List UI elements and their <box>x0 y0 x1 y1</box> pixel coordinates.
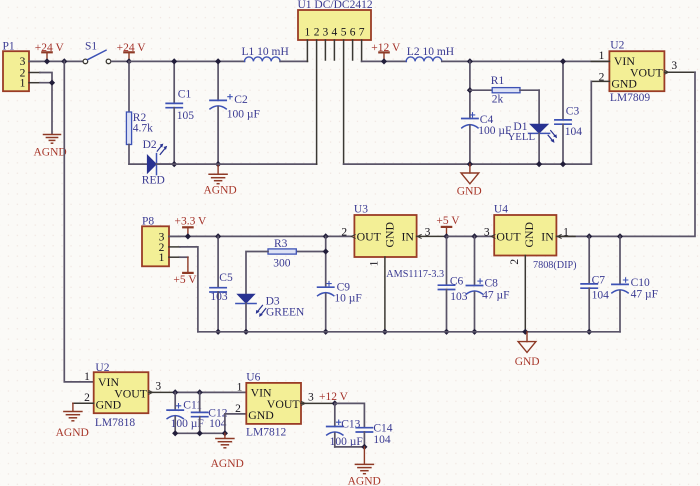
svg-text:1: 1 <box>20 78 26 90</box>
svg-text:1: 1 <box>237 382 243 394</box>
svg-text:2: 2 <box>341 226 347 238</box>
svg-text:7: 7 <box>359 27 365 39</box>
svg-text:103: 103 <box>450 291 468 303</box>
resistor R2 <box>126 61 153 164</box>
junction left vertical drop <box>61 58 67 64</box>
svg-text:GND: GND <box>611 76 637 90</box>
ground AGND under C12 <box>211 433 244 470</box>
svg-text:47 µF: 47 µF <box>482 290 509 302</box>
capacitor C5 <box>210 236 233 331</box>
svg-text:7808(DIP): 7808(DIP) <box>533 260 577 271</box>
svg-text:RED: RED <box>142 175 165 187</box>
svg-text:U2: U2 <box>610 40 624 52</box>
capacitor C14 <box>356 423 393 447</box>
IC U4 7808(DIP) <box>494 204 577 272</box>
wire U2b VOUT to U6 VIN <box>175 391 246 393</box>
svg-text:2: 2 <box>509 259 521 265</box>
pin 2 stub of P8 <box>169 246 180 248</box>
pin 3 of U6 (VOUT) <box>301 392 335 406</box>
pin 6 of U1 stub <box>352 40 354 60</box>
IC U3 AMS1117-3.3 <box>354 204 444 281</box>
IC U2 LM7818 <box>94 362 149 429</box>
pin 3 stub of P1 <box>29 60 40 62</box>
inductor L1 <box>242 46 289 62</box>
svg-text:3: 3 <box>308 392 314 404</box>
svg-text:C6: C6 <box>450 275 464 287</box>
svg-text:3: 3 <box>323 27 329 39</box>
svg-text:103: 103 <box>210 291 228 303</box>
wire U1 pin7 to L2 <box>362 60 407 62</box>
svg-text:L2 10 mH: L2 10 mH <box>407 46 454 58</box>
pin 3 of U2b (VOUT) <box>148 381 175 395</box>
junction C5 top <box>215 233 221 239</box>
svg-text:104: 104 <box>209 418 227 430</box>
ground AGND under C2 <box>209 164 227 184</box>
pin 2 of U3 (OUT) <box>341 226 355 238</box>
junction +12V <box>381 58 387 64</box>
svg-text:1: 1 <box>84 371 90 383</box>
pin 3 of U3 (IN) <box>417 226 447 238</box>
LED D3 <box>236 294 305 332</box>
wire VOUT to C14 <box>335 403 365 427</box>
svg-text:104: 104 <box>373 434 391 446</box>
wire U2 GND down to rail <box>590 81 592 164</box>
svg-text:6: 6 <box>350 27 356 39</box>
svg-text:+24 V: +24 V <box>117 42 147 54</box>
junction C12 top <box>197 389 203 395</box>
svg-text:LM7818: LM7818 <box>95 417 135 429</box>
svg-text:GND: GND <box>248 408 274 422</box>
svg-text:GND: GND <box>515 356 540 368</box>
IC U6 LM7812 <box>246 371 301 438</box>
svg-text:OUT: OUT <box>357 229 382 243</box>
svg-text:C3: C3 <box>566 106 580 118</box>
ground GND row2 <box>515 332 540 368</box>
wire C4 branch vertical <box>469 61 471 118</box>
power +5 V inverted at P8 pin1 <box>173 257 197 286</box>
IC U2 LM7809 <box>609 40 664 105</box>
svg-text:2: 2 <box>235 403 241 415</box>
pin 1 of U6 (VIN) <box>237 382 243 394</box>
junction C7 bottom <box>586 329 592 335</box>
switch S1 <box>83 41 111 64</box>
junction C4 bottom <box>467 161 473 167</box>
power +3.3 V <box>175 216 208 237</box>
svg-text:3: 3 <box>484 226 490 238</box>
svg-text:C10: C10 <box>631 277 650 289</box>
pin 1 of U1 <box>306 40 308 61</box>
capacitor C8 polarized <box>466 236 509 331</box>
junction U4 GND bottom <box>522 329 528 335</box>
svg-text:YELL: YELL <box>508 131 536 143</box>
svg-text:OUT: OUT <box>496 229 521 243</box>
junction C3 bottom <box>560 161 566 167</box>
svg-text:U3: U3 <box>354 204 368 216</box>
svg-text:AGND: AGND <box>204 184 237 196</box>
svg-text:AMS1117-3.3: AMS1117-3.3 <box>386 269 444 280</box>
junction C2 bottom <box>215 161 221 167</box>
IC U1 DC/DC2412 <box>298 0 373 40</box>
pin 4 of U1 stub <box>333 40 335 60</box>
junction AGND row3 <box>222 430 228 436</box>
svg-text:+3.3 V: +3.3 V <box>175 216 208 228</box>
pin 1 of U3 (GND) <box>369 257 385 332</box>
svg-text:C5: C5 <box>219 272 233 284</box>
capacitor C12 <box>192 392 228 433</box>
svg-text:100 µF: 100 µF <box>171 418 204 430</box>
LED D2 <box>129 139 174 186</box>
capacitor C9 polarized <box>318 281 362 331</box>
svg-text:1: 1 <box>159 252 165 264</box>
inductor L2 <box>406 46 454 62</box>
wire C11/C12 bottom rail <box>175 432 225 434</box>
connector P8 <box>142 216 169 267</box>
wire main bus to L1 <box>129 60 245 62</box>
junction +5V / C6 <box>443 233 449 239</box>
svg-text:R1: R1 <box>491 75 505 87</box>
ground AGND under P1 <box>44 135 61 144</box>
capacitor C13 polarized <box>327 403 363 447</box>
junction C10 top <box>617 233 623 239</box>
junction +24V on wire <box>44 58 50 64</box>
wire P1 pin3 to switch <box>29 60 83 62</box>
resistor R3 <box>246 238 326 294</box>
wire long vertical to bottom U2 <box>64 61 93 382</box>
pin 3 of U4 (OUT) <box>484 226 495 238</box>
svg-text:4: 4 <box>332 27 338 39</box>
ground AGND at U2b <box>56 403 89 439</box>
capacitor C2 polarized <box>210 61 260 164</box>
svg-text:2k: 2k <box>492 94 504 106</box>
svg-text:105: 105 <box>177 110 195 122</box>
svg-text:LM7809: LM7809 <box>610 92 651 104</box>
svg-text:L1 10 mH: L1 10 mH <box>242 46 289 58</box>
pin 1 of U2 (VIN) <box>591 50 609 62</box>
svg-text:GND: GND <box>96 398 122 412</box>
pin 2 of U4 (GND) <box>509 256 525 332</box>
junction C14 bottom <box>361 444 367 450</box>
capacitor C4 polarized <box>462 113 512 164</box>
junction C13 top <box>332 400 338 406</box>
svg-text:C8: C8 <box>485 278 499 290</box>
svg-text:C14: C14 <box>373 423 392 435</box>
pin 1 stub of P8 <box>169 256 180 258</box>
svg-text:2: 2 <box>84 392 90 404</box>
wire GND rail right (U1 pin5 to U2 GND) <box>344 163 592 165</box>
svg-text:104: 104 <box>565 126 583 138</box>
svg-text:5: 5 <box>341 27 347 39</box>
svg-text:AGND: AGND <box>34 147 67 159</box>
svg-text:100 µF: 100 µF <box>478 125 511 137</box>
svg-text:1: 1 <box>563 226 569 238</box>
power +24 V at P1 <box>35 42 65 62</box>
svg-text:C7: C7 <box>592 274 606 286</box>
svg-text:R3: R3 <box>274 238 288 250</box>
junction C4 branch <box>467 58 473 64</box>
wire P1 pin2 down <box>40 73 52 83</box>
svg-text:+5 V: +5 V <box>436 215 460 227</box>
svg-text:3: 3 <box>155 381 161 393</box>
svg-text:GREEN: GREEN <box>266 307 305 319</box>
wire AGND rail left (D2 to U1 pin2) <box>157 163 317 165</box>
svg-text:U1 DC/DC2412: U1 DC/DC2412 <box>298 0 373 11</box>
junction C12 bottom <box>197 430 203 436</box>
svg-text:300: 300 <box>273 257 291 269</box>
junction U3 GND bottom <box>382 329 388 335</box>
svg-text:GND: GND <box>457 185 482 197</box>
svg-text:IN: IN <box>541 229 554 243</box>
junction C3 top <box>560 58 566 64</box>
svg-text:+24 V: +24 V <box>35 42 65 54</box>
svg-text:GND: GND <box>522 221 536 247</box>
svg-text:3: 3 <box>20 56 26 68</box>
svg-text:100 µF: 100 µF <box>330 436 363 448</box>
pin 1 of U4 (IN) <box>556 226 575 238</box>
wire C13 to C14 bottom <box>335 446 365 448</box>
svg-text:P8: P8 <box>142 216 154 228</box>
svg-text:C1: C1 <box>178 88 192 100</box>
junction R3 right <box>323 248 329 254</box>
capacitor C6 <box>438 236 467 331</box>
wire U6 GND to rail <box>225 414 246 433</box>
junction C8 top <box>471 233 477 239</box>
svg-text:S1: S1 <box>85 41 97 53</box>
LED D1 <box>508 90 557 164</box>
svg-text:47 µF: 47 µF <box>631 288 658 300</box>
pin 3 stub of P8 <box>169 235 180 237</box>
capacitor C11 polarized <box>167 392 204 433</box>
svg-text:C13: C13 <box>341 419 360 431</box>
connector P1 <box>3 41 30 92</box>
svg-text:3: 3 <box>671 60 677 72</box>
svg-text:+5 V: +5 V <box>173 274 197 286</box>
svg-text:AGND: AGND <box>348 476 381 486</box>
wire P1 pin1 to AGND <box>40 83 52 134</box>
wire L2 to U2 VIN <box>442 60 610 62</box>
pin 1 stub of P1 <box>29 82 40 84</box>
junction C11 top <box>172 389 178 395</box>
svg-text:+12 V: +12 V <box>319 391 349 403</box>
pin 1 of U2b (VIN) <box>84 371 90 383</box>
pin 5 of U1 (to GND rail) <box>343 40 345 164</box>
svg-text:1: 1 <box>305 27 311 39</box>
svg-text:2: 2 <box>314 27 320 39</box>
svg-text:GND: GND <box>382 221 396 247</box>
junction C2 top <box>215 58 221 64</box>
junction C1 bottom <box>171 161 177 167</box>
wire P8 pin2 down to bottom rail <box>180 247 198 332</box>
svg-text:C2: C2 <box>234 94 248 106</box>
junction pin1/pin2 <box>49 80 55 86</box>
svg-text:1: 1 <box>599 50 605 62</box>
svg-text:D2: D2 <box>143 139 157 151</box>
svg-text:U6: U6 <box>246 371 260 383</box>
svg-text:3: 3 <box>425 226 431 238</box>
junction D3 bottom <box>243 329 249 335</box>
wire +5V node to U4 OUT <box>447 235 495 237</box>
resistor R1 <box>470 75 539 105</box>
ground GND row1 <box>457 164 482 197</box>
svg-text:100 µF: 100 µF <box>227 108 260 120</box>
svg-text:U2: U2 <box>95 362 109 374</box>
junction R3 branch top <box>323 233 329 239</box>
svg-text:104: 104 <box>592 289 610 301</box>
junction C9 bottom <box>323 329 329 335</box>
capacitor C3 <box>555 61 582 164</box>
pin 2 of U6 (GND) <box>235 403 241 415</box>
pin 3 of U2 (VOUT) <box>664 60 695 74</box>
pin 2 of U2 (GND) <box>591 71 609 83</box>
svg-text:LM7812: LM7812 <box>246 426 287 438</box>
wire U2 VOUT down to U4 IN <box>556 72 695 236</box>
junction C11 bottom <box>172 430 178 436</box>
wire R3/C9 branch vertical <box>325 236 327 287</box>
junction D1 bottom <box>536 161 542 167</box>
junction C8 bottom <box>471 329 477 335</box>
pin 2 of U1 (to AGND rail) <box>316 40 318 164</box>
junction R1 branch <box>467 87 473 93</box>
ground AGND under C14 <box>348 447 381 486</box>
svg-text:10 µF: 10 µF <box>334 292 361 304</box>
svg-text:+12 V: +12 V <box>371 42 401 54</box>
junction C6 bottom <box>443 329 449 335</box>
svg-text:P1: P1 <box>3 41 15 53</box>
svg-text:AGND: AGND <box>211 458 244 470</box>
capacitor C7 <box>581 236 609 331</box>
pin 2 stub of P1 <box>29 72 40 74</box>
pin 7 of U1 <box>361 40 363 61</box>
svg-text:IN: IN <box>402 229 415 243</box>
junction C1 top <box>171 58 177 64</box>
power +12 V <box>371 42 401 61</box>
junction C5 bottom <box>215 329 221 335</box>
junction +3.3V <box>185 233 191 239</box>
capacitor C1 <box>166 61 194 164</box>
power +5 V row2 <box>436 215 460 236</box>
junction C7 top <box>586 233 592 239</box>
power +24 V second <box>117 42 147 62</box>
svg-text:2: 2 <box>599 71 605 83</box>
capacitor C10 polarized <box>612 236 658 331</box>
svg-text:U4: U4 <box>494 204 508 216</box>
wire L1 to U1 pin1 <box>280 60 307 62</box>
junction R2 top <box>126 58 132 64</box>
wire row2 bottom rail <box>198 331 620 333</box>
wire switch to +24V node <box>111 60 129 62</box>
pin 3 of U1 stub <box>324 40 326 60</box>
svg-text:1: 1 <box>369 260 381 266</box>
pin 2 of U2b (GND) <box>73 392 94 404</box>
wire P8 pin3 to U3 OUT <box>169 235 352 237</box>
svg-text:4.7k: 4.7k <box>133 123 153 135</box>
svg-text:AGND: AGND <box>56 427 89 439</box>
